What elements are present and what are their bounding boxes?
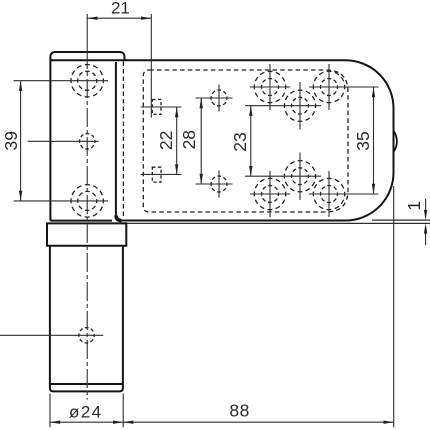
frame leaf plate outline (vertical plate with rounded top cap) — [50, 52, 124, 221]
big hole top-right — [313, 71, 344, 102]
vertical centerline dash-dot — [86, 50, 88, 400]
upper slot hole (dashed rect) — [152, 100, 161, 115]
leaf middle hole (dashed) — [80, 134, 95, 149]
barrel pin hole centerline — [0, 334, 103, 336]
svg-text:35: 35 — [353, 131, 373, 150]
leaf hidden edge (dashed) — [122, 62, 124, 219]
svg-text:22: 22 — [156, 131, 176, 150]
mid column lower hole — [211, 176, 227, 192]
leaf top hole (dashed, countersunk) — [71, 65, 103, 97]
dimension 35 — [373, 87, 375, 194]
barrel (pin cylinder) — [50, 246, 123, 384]
dimension 88 — [123, 186, 394, 427]
dimension 39 — [14, 81, 108, 201]
svg-text:28: 28 — [179, 130, 199, 149]
lower slot hole (dashed rect) — [152, 167, 161, 182]
dimension 28 — [200, 98, 202, 184]
leaf middle hole centerline — [28, 140, 99, 142]
big hole bottom-left — [254, 178, 285, 209]
frame rebate line (thin, continues to image edge) — [127, 222, 430, 224]
inner dashed plate outline — [143, 70, 348, 212]
center column upper hole — [284, 90, 315, 121]
dimension 21 — [87, 14, 151, 118]
mid column upper hole — [211, 90, 227, 106]
leaf bottom hole (dashed, countersunk) — [71, 185, 103, 217]
right edge bump — [394, 131, 397, 152]
svg-text:1: 1 — [404, 201, 424, 211]
svg-text:88: 88 — [229, 400, 249, 420]
dimension ø24 — [50, 394, 123, 428]
svg-text:23: 23 — [230, 132, 250, 151]
big hole bottom-right — [313, 178, 344, 209]
fillet at leaf/body junction — [116, 216, 122, 221]
leaf cap inner line — [50, 59, 124, 61]
barrel pin hole — [79, 328, 94, 343]
collar (barrel housing) — [47, 223, 126, 245]
svg-text:ø24: ø24 — [69, 402, 103, 421]
upper slot centerline / extension to dim 22 — [141, 106, 182, 108]
vertical centerline through leaf and barrel (extension of dim 21) — [86, 14, 88, 50]
sash body outline (horizontal leaf, rounded right end) — [118, 60, 394, 220]
svg-text:39: 39 — [1, 131, 21, 150]
body bottom edge extension at right — [372, 219, 430, 221]
dimension 1 (right edge offset) — [425, 199, 427, 246]
dimension 22 — [176, 107, 178, 174]
dimension 23 — [250, 106, 252, 177]
barrel bottom seam — [50, 383, 123, 385]
leaf bottom edge — [50, 220, 112, 222]
big hole top-left — [254, 71, 285, 102]
svg-text:21: 21 — [111, 0, 130, 18]
barrel end cap — [50, 384, 123, 391]
leaf right edge with bottom fillet — [116, 62, 120, 221]
center column lower hole — [284, 161, 315, 192]
lower slot centerline / extension to dim 22 — [141, 173, 182, 175]
